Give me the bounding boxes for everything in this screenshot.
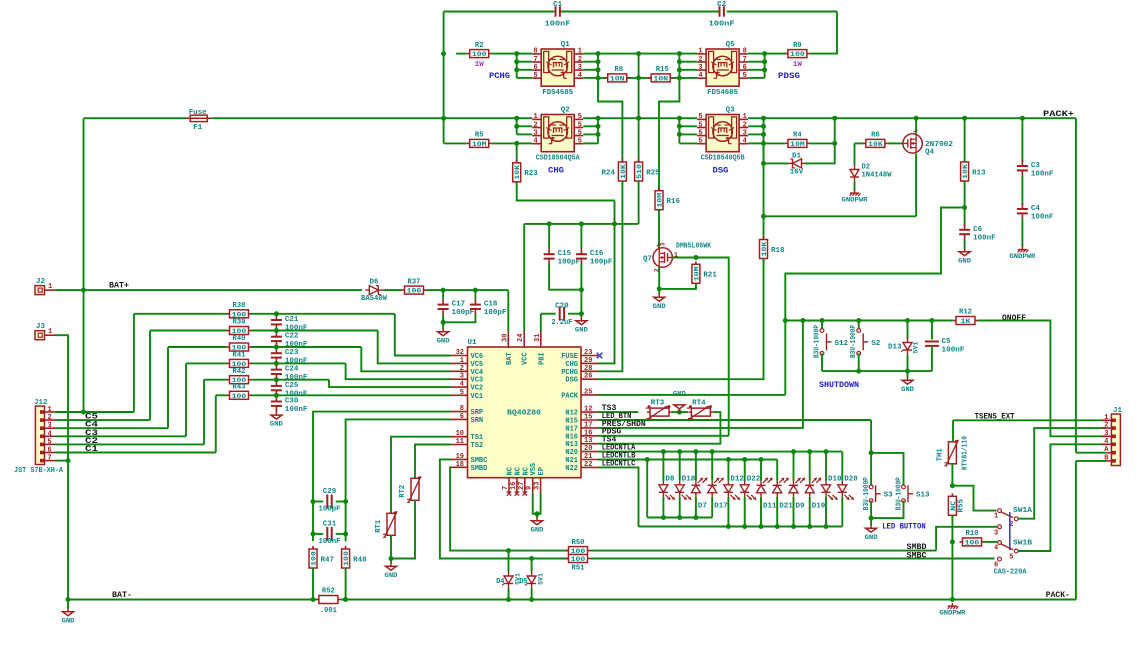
ground GND under J12 <box>62 608 75 624</box>
svg-text:SW1B: SW1B <box>1013 540 1033 548</box>
wire LEDCNTLB row <box>598 459 777 461</box>
svg-text:SMBC: SMBC <box>471 457 488 465</box>
junction <box>677 449 682 454</box>
svg-text:4: 4 <box>698 72 702 80</box>
junction <box>596 124 601 129</box>
wire <box>748 117 763 119</box>
wire J12 pin5 <box>56 443 205 445</box>
resistor R48 <box>342 546 368 571</box>
junction <box>761 214 766 219</box>
svg-text:1K: 1K <box>961 318 972 326</box>
junction <box>761 116 766 121</box>
wire top rail right <box>727 11 837 13</box>
wire Q7 gate to PDSG row <box>696 258 729 436</box>
wire <box>764 162 789 164</box>
wire <box>679 61 697 63</box>
svg-text:GNDPWR: GNDPWR <box>1009 253 1035 260</box>
transistor Q2 <box>532 107 583 163</box>
wire <box>134 313 227 315</box>
svg-text:5: 5 <box>578 113 582 121</box>
svg-text:16: 16 <box>510 482 518 490</box>
wire <box>748 125 763 127</box>
wire top rail left <box>444 11 555 13</box>
U1 pin 2 VC4 <box>451 365 484 377</box>
svg-text:Q7: Q7 <box>643 256 652 264</box>
svg-text:PACK-: PACK- <box>1046 590 1070 600</box>
junction <box>762 51 767 56</box>
U1 pin 16 N16 <box>565 429 598 441</box>
wire to BAT riser <box>427 289 509 291</box>
junction <box>514 116 519 121</box>
resistor R47 <box>309 546 334 571</box>
wire J12 pin4 <box>56 435 187 437</box>
wire <box>275 346 277 349</box>
svg-text:C22: C22 <box>285 333 299 341</box>
resistor R21 <box>692 261 718 286</box>
svg-text:100nF: 100nF <box>709 21 736 29</box>
svg-text:16V: 16V <box>790 169 804 177</box>
wire <box>444 142 467 144</box>
svg-text:RT4: RT4 <box>692 400 706 408</box>
wire <box>442 322 444 328</box>
switch SW1B contact 5 <box>1009 549 1018 561</box>
resistor R23 <box>513 160 539 185</box>
svg-text:CSD18504Q5A: CSD18504Q5A <box>536 155 580 163</box>
wire <box>583 69 598 71</box>
wire <box>888 142 904 144</box>
wire <box>252 379 330 381</box>
svg-text:7: 7 <box>502 486 510 490</box>
wire LED column bottom <box>776 497 778 527</box>
svg-text:1: 1 <box>994 513 998 521</box>
svg-text:2: 2 <box>743 121 747 129</box>
thermistor RT4 <box>687 400 714 419</box>
wire VCC riser <box>523 224 525 331</box>
wire LED column top <box>760 460 762 481</box>
resistor R8 <box>605 66 630 83</box>
svg-text:2: 2 <box>460 365 464 373</box>
svg-text:R24: R24 <box>601 169 615 177</box>
svg-text:PACK+: PACK+ <box>1043 109 1074 119</box>
svg-text:S13: S13 <box>916 492 930 500</box>
wire <box>252 346 362 348</box>
wire Q3 right rail <box>763 118 765 143</box>
switch SW1B arm <box>1001 544 1013 550</box>
wire LED column bottom <box>695 497 697 518</box>
pushbutton S3 <box>869 485 893 503</box>
svg-text:27: 27 <box>518 482 526 490</box>
svg-text:3: 3 <box>698 64 702 72</box>
switch SW1A contact 2 <box>1009 517 1018 529</box>
junction <box>791 449 796 454</box>
resistor R52 <box>316 588 341 604</box>
junction <box>824 524 829 529</box>
wire stack to U1 <box>378 331 451 364</box>
wire <box>580 290 582 314</box>
svg-text:17: 17 <box>584 421 592 429</box>
wire <box>858 321 860 331</box>
wire R18 to DSG pin <box>598 259 764 380</box>
wire R24 to PCHG pin <box>598 181 622 371</box>
wire <box>517 61 533 63</box>
wire drain rail mid <box>598 117 679 119</box>
resistor R38 <box>227 302 252 319</box>
svg-text:C17: C17 <box>452 301 466 309</box>
switch SW1A contact 3 <box>994 525 1001 537</box>
J12 pin 3 <box>40 422 56 430</box>
svg-text:PCHG: PCHG <box>489 71 510 81</box>
IC U1 BQ40Z80 body <box>468 347 582 478</box>
wire <box>951 320 954 322</box>
svg-text:GND: GND <box>575 326 588 333</box>
J1 pin 3 <box>1102 430 1116 438</box>
svg-text:SMBD: SMBD <box>471 465 488 473</box>
capacitor C17 <box>438 299 475 318</box>
wire <box>275 313 277 316</box>
wire VCC rail <box>524 223 638 225</box>
wire <box>870 501 872 525</box>
U1 pin 26 DSG <box>565 373 598 385</box>
LED D20 <box>838 481 854 500</box>
wire LED column top <box>809 452 811 481</box>
wire LED column bottom <box>744 497 746 527</box>
wire <box>474 290 476 299</box>
ground GND shutdown <box>901 377 914 393</box>
ground GND under S3 <box>865 525 878 541</box>
junction <box>761 124 766 129</box>
junction <box>636 116 641 121</box>
U1 pin 12 N12 <box>565 406 598 418</box>
junction <box>677 410 682 415</box>
svg-text:N21: N21 <box>565 457 578 465</box>
svg-text:N22: N22 <box>565 465 578 473</box>
svg-text:GND: GND <box>385 572 398 579</box>
svg-text:SMBC: SMBC <box>907 551 927 561</box>
svg-text:CHG: CHG <box>548 166 564 176</box>
wire <box>672 411 688 413</box>
wire <box>748 53 765 55</box>
wire LED column top <box>711 452 713 481</box>
svg-text:SHUTDOWN: SHUTDOWN <box>819 380 859 390</box>
wire ONOFF to J1 pin3 <box>978 321 1106 437</box>
junction <box>661 515 666 520</box>
svg-text:GND: GND <box>531 526 544 533</box>
wire R4/D1 right vertical <box>805 118 835 163</box>
junction <box>677 116 682 121</box>
wire J1 pin B <box>1076 460 1106 462</box>
svg-text:RT1: RT1 <box>375 519 383 533</box>
wire drop to J12 <box>185 363 187 436</box>
J1 pin 2 <box>1102 422 1116 430</box>
wire LED rail1 <box>647 517 712 519</box>
svg-text:VC3: VC3 <box>471 377 484 385</box>
resistor R55 <box>948 493 965 518</box>
svg-text:D11: D11 <box>763 503 777 511</box>
junction <box>596 116 601 121</box>
svg-text:3: 3 <box>743 129 747 137</box>
pushbutton S12 <box>820 329 848 356</box>
junction <box>441 116 446 121</box>
svg-text:8: 8 <box>743 48 747 56</box>
svg-text:VC2: VC2 <box>471 385 484 393</box>
junction <box>441 288 446 293</box>
junction <box>274 311 279 316</box>
wire J3 down <box>56 335 69 460</box>
U1 pin 24 VCC <box>517 331 530 365</box>
junction <box>693 449 698 454</box>
svg-text:R8: R8 <box>614 66 623 74</box>
ground GND under C20 <box>575 317 588 333</box>
J12 pin 4 <box>40 430 56 438</box>
wire <box>492 53 517 55</box>
wire R38 drop <box>133 314 135 412</box>
svg-text:12: 12 <box>584 406 592 414</box>
svg-text:R39: R39 <box>233 319 246 327</box>
junction <box>807 524 812 529</box>
wire <box>456 53 467 55</box>
svg-text:R42: R42 <box>233 368 246 376</box>
wire <box>275 379 277 382</box>
wire <box>517 77 533 79</box>
junction <box>514 59 519 64</box>
svg-text:N12: N12 <box>565 410 578 418</box>
wire R43 to VC1 <box>252 394 451 396</box>
junction <box>612 221 617 226</box>
svg-text:VC6: VC6 <box>471 353 484 361</box>
svg-text:1: 1 <box>48 406 52 414</box>
svg-text:D9: D9 <box>796 503 806 511</box>
wire <box>275 378 277 381</box>
wire EP <box>537 494 541 518</box>
junction <box>81 410 86 415</box>
svg-text:1: 1 <box>48 283 52 291</box>
resistor R4 <box>785 132 810 149</box>
svg-text:R21: R21 <box>703 272 717 280</box>
U1 pin 33 EP <box>534 467 547 493</box>
junction <box>506 597 511 602</box>
svg-text:5: 5 <box>698 138 702 146</box>
junction <box>726 457 731 462</box>
wire <box>204 379 227 381</box>
resistor R6 <box>863 132 888 149</box>
wire <box>442 290 444 299</box>
svg-text:D10: D10 <box>828 476 842 484</box>
svg-text:CSD18540Q5B: CSD18540Q5B <box>701 155 745 163</box>
svg-text:JST S7B-XH-A: JST S7B-XH-A <box>14 467 63 475</box>
svg-text:1: 1 <box>460 357 464 365</box>
svg-text:4: 4 <box>578 72 582 80</box>
wire <box>748 69 765 71</box>
wire R16 to Q7 <box>658 210 660 249</box>
svg-text:NC: NC <box>522 467 530 475</box>
LED D10 <box>822 481 838 500</box>
capacitor C3 <box>1017 160 1054 179</box>
svg-text:BQ40Z80: BQ40Z80 <box>507 410 542 418</box>
U1 pin 11 TS2 <box>451 438 484 450</box>
J12 pin 5 <box>40 438 56 446</box>
wire PACK- up to J1 pin B <box>1075 461 1077 600</box>
LED D7 <box>691 478 707 497</box>
svg-text:R18: R18 <box>771 247 785 255</box>
junction <box>742 457 747 462</box>
junction <box>677 67 682 72</box>
junction <box>677 132 682 137</box>
wire BAT riser <box>507 290 509 331</box>
svg-text:2: 2 <box>533 121 537 129</box>
junction <box>514 67 519 72</box>
wire LED column bottom <box>662 497 664 518</box>
junction <box>529 556 534 561</box>
svg-text:10N: 10N <box>610 75 625 83</box>
svg-text:FDS4685: FDS4685 <box>707 89 738 97</box>
wire <box>216 394 227 396</box>
svg-text:5: 5 <box>578 138 582 146</box>
svg-text:GND: GND <box>865 534 878 541</box>
svg-text:8: 8 <box>533 48 537 56</box>
svg-text:R5: R5 <box>475 132 484 140</box>
wire BAT+ row <box>56 289 363 291</box>
svg-text:DMN5L06WK: DMN5L06WK <box>676 243 712 251</box>
wire TS3 row <box>598 411 638 413</box>
wire <box>748 77 765 79</box>
svg-text:VC1: VC1 <box>471 393 484 401</box>
svg-text:100: 100 <box>965 539 980 547</box>
svg-text:R9: R9 <box>793 42 802 50</box>
svg-text:D18: D18 <box>682 476 696 484</box>
wire LED column bottom <box>793 497 795 527</box>
wire LED column top <box>695 452 697 481</box>
no-connect FUSE pin <box>597 353 603 359</box>
transistor Q4 <box>903 130 922 153</box>
wire BAT- row left <box>68 599 316 601</box>
wire <box>168 346 227 348</box>
junction <box>869 450 874 455</box>
svg-text:510: 510 <box>636 164 644 179</box>
svg-text:16: 16 <box>584 429 592 437</box>
junction <box>66 597 71 602</box>
svg-text:C15: C15 <box>558 250 572 258</box>
svg-text:3: 3 <box>578 64 582 72</box>
junction <box>343 597 348 602</box>
wire top rail mid <box>561 11 720 13</box>
svg-text:19: 19 <box>456 453 464 461</box>
thermistor TH1 <box>936 440 958 466</box>
transistor Q1 <box>532 41 583 97</box>
wire Q3 left rail <box>678 118 680 143</box>
svg-text:D17: D17 <box>714 503 728 511</box>
svg-text:N16: N16 <box>565 433 578 441</box>
wire <box>531 559 533 572</box>
junction <box>950 483 955 488</box>
no-connect NC pin <box>523 491 527 495</box>
capacitor C22 <box>271 331 308 350</box>
wire Q5 right rail <box>764 54 766 78</box>
junction <box>596 132 601 137</box>
svg-text:R16: R16 <box>667 198 681 206</box>
svg-text:D19: D19 <box>812 503 826 511</box>
svg-text:C5: C5 <box>942 338 952 346</box>
wire <box>952 420 954 441</box>
junction <box>579 221 584 226</box>
svg-text:GNDPWR: GNDPWR <box>842 197 868 204</box>
svg-text:29: 29 <box>584 357 592 365</box>
svg-text:5V1: 5V1 <box>537 573 544 585</box>
wire SMBC route <box>440 459 569 558</box>
wire <box>67 600 69 609</box>
svg-text:31: 31 <box>534 334 542 342</box>
U1 pin 22 N22 <box>565 461 598 473</box>
wire SMBC to switch <box>591 558 995 560</box>
no-connect NC pin <box>507 491 511 495</box>
svg-text:3: 3 <box>1104 430 1108 438</box>
svg-text:N20: N20 <box>565 449 578 457</box>
svg-text:R47: R47 <box>321 556 335 564</box>
junction <box>693 515 698 520</box>
junction <box>962 116 967 121</box>
wire Q2 right rail <box>597 118 599 143</box>
svg-text:PACK: PACK <box>561 392 579 400</box>
svg-text:1W: 1W <box>793 61 803 69</box>
wire <box>765 53 788 55</box>
wire PRES/SHDN row <box>598 321 803 428</box>
wire J12 pin6 <box>56 452 216 454</box>
svg-text:D13: D13 <box>888 344 902 352</box>
zener diode D1 <box>788 159 806 168</box>
wire LED_BTN down to S3 <box>870 420 872 485</box>
svg-text:R51: R51 <box>572 565 586 573</box>
capacitor C1 <box>545 1 572 29</box>
svg-text:100: 100 <box>407 288 422 296</box>
wire <box>679 133 697 135</box>
wire <box>549 264 581 290</box>
wire <box>821 353 823 371</box>
svg-text:N17: N17 <box>565 425 578 433</box>
svg-text:C4: C4 <box>1031 205 1041 213</box>
wire <box>252 330 378 332</box>
svg-text:3: 3 <box>994 529 998 537</box>
svg-text:3: 3 <box>533 129 537 137</box>
svg-text:15: 15 <box>584 414 592 422</box>
wire <box>186 362 227 364</box>
svg-text:100: 100 <box>232 393 247 401</box>
junction <box>661 449 666 454</box>
junction <box>636 75 641 80</box>
zener diode D5 <box>525 572 536 589</box>
wire R23 bottom jog <box>517 182 615 201</box>
svg-text:100nF: 100nF <box>285 374 308 382</box>
junction <box>441 51 446 56</box>
svg-text:100nF: 100nF <box>1031 214 1054 222</box>
wire Q7 gate <box>672 257 696 259</box>
junction <box>579 287 584 292</box>
transistor Q5 <box>697 41 748 97</box>
wire Q7 source down <box>658 267 660 289</box>
wire <box>580 314 582 318</box>
junction <box>506 548 511 553</box>
wire <box>275 329 277 332</box>
resistor R9 <box>785 42 810 69</box>
wire <box>679 142 697 144</box>
svg-text:25: 25 <box>584 388 592 396</box>
svg-text:1: 1 <box>578 48 582 56</box>
svg-text:B3U-1000P: B3U-1000P <box>863 477 871 510</box>
svg-text:32: 32 <box>456 349 464 357</box>
junction <box>1020 116 1025 121</box>
junction <box>929 318 934 323</box>
junction <box>343 531 348 536</box>
wire to C3 <box>1021 118 1023 162</box>
junction <box>962 205 967 210</box>
